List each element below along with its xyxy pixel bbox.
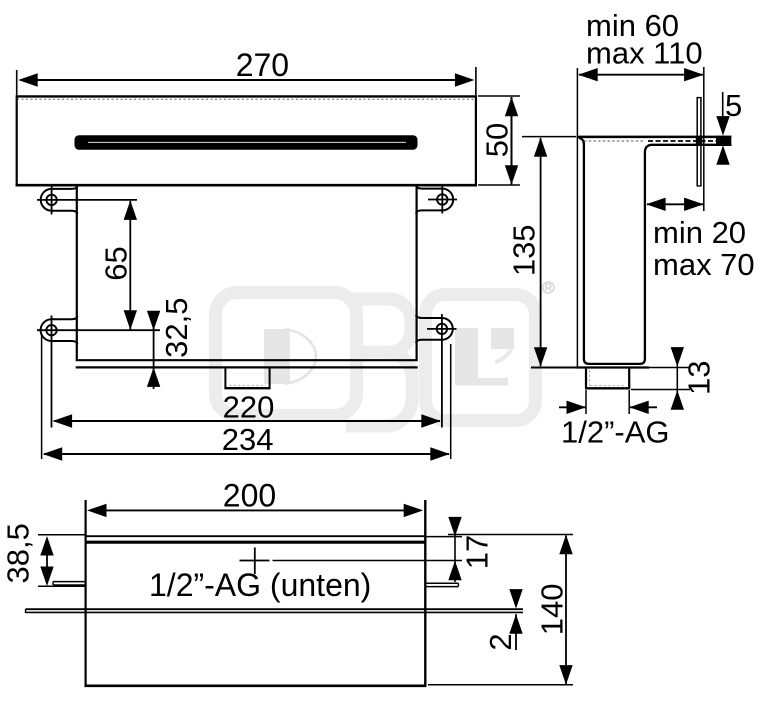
bottom box top line 2 xyxy=(85,541,426,544)
dim 65 line xyxy=(129,201,131,330)
dim 200 arrow left xyxy=(87,504,107,517)
dim min60/max110 line xyxy=(579,74,703,76)
dim 13 arrow top xyxy=(671,347,684,367)
stub bottom edge xyxy=(585,387,630,389)
body bottom line 1 xyxy=(76,359,418,361)
front box bottom edge xyxy=(16,184,477,187)
lug bottom-right hole xyxy=(437,324,447,334)
dim 234 extension right xyxy=(450,344,452,459)
spout tab right xyxy=(269,369,271,389)
profile right end cap xyxy=(716,136,731,145)
dim 13 extension bottom xyxy=(631,389,690,391)
dim 32,5 line middle xyxy=(153,330,155,367)
lug stub right top xyxy=(425,582,458,584)
body bottom line 2 xyxy=(76,366,418,368)
watermark letter L stem xyxy=(455,328,478,386)
dim 135 arrow up xyxy=(534,137,547,157)
spout tab bottom xyxy=(224,387,270,389)
dim 32,5 arrow bottom xyxy=(147,367,160,387)
dim 140 extension bottom xyxy=(428,684,573,686)
wall plate right face xyxy=(700,98,702,186)
lug top-right outline xyxy=(416,186,453,214)
watermark letter D stem xyxy=(264,329,290,384)
profile outer-left line xyxy=(576,68,578,368)
wall plate left face xyxy=(696,98,698,186)
front box top edge line 2 xyxy=(17,98,476,100)
svg-text:200: 200 xyxy=(223,478,276,514)
plate panel crossing xyxy=(696,136,703,145)
dim 270 line xyxy=(30,79,462,81)
svg-text:5: 5 xyxy=(725,88,742,123)
dim 13 arrow bottom xyxy=(671,390,684,410)
front box right edge xyxy=(475,95,477,186)
dim 50 arrow down xyxy=(505,165,518,185)
profile inner-right wall xyxy=(640,145,732,364)
lug bottom-right crosshair vertical / dim 220 extension right xyxy=(441,314,443,428)
bottom box left edge / dim 200 extension left xyxy=(84,500,86,687)
body left edge xyxy=(76,186,78,361)
dim 38,5 arrow up xyxy=(40,536,53,556)
dim 1/2-AG tail left xyxy=(559,406,586,408)
dim 38,5 arrow down xyxy=(40,567,53,587)
svg-text:135: 135 xyxy=(507,224,542,276)
profile outer bottom line / dim 13 extension top xyxy=(576,366,649,368)
dim 270 extension left xyxy=(16,70,18,95)
watermark letter D bowl xyxy=(285,329,316,384)
stub thread line left xyxy=(589,370,591,386)
dim 135 arrow down xyxy=(534,347,547,367)
dim 13 tail bottom xyxy=(676,390,678,408)
dim 200 line xyxy=(100,509,410,511)
svg-text:1/2”-AG (unten): 1/2”-AG (unten) xyxy=(149,567,371,603)
lug top-right crosshair horizontal xyxy=(428,199,457,201)
svg-text:max 110: max 110 xyxy=(586,36,703,71)
lug stub right cap xyxy=(457,583,459,586)
dim 65 arrow down xyxy=(124,310,137,330)
dim 17 extension top xyxy=(426,536,462,538)
front box left edge xyxy=(16,95,18,186)
dim 135 line xyxy=(540,138,542,366)
dim 140 arrow up xyxy=(559,535,572,555)
dim 200 arrow right xyxy=(404,504,424,517)
dim 17 arrow top xyxy=(448,517,461,537)
lug top-right crosshair vertical xyxy=(441,186,443,214)
watermark quote curl xyxy=(495,349,511,362)
lug top-left crosshair horizontal / dim 65 extension top xyxy=(37,199,137,201)
lug top-left hole xyxy=(46,195,56,205)
svg-text:13: 13 xyxy=(682,360,717,394)
dim 270 arrow right xyxy=(455,73,475,86)
dim 135 extension bottom xyxy=(531,367,577,369)
watermark quote blob xyxy=(491,328,514,349)
dim 135 extension top xyxy=(522,136,576,138)
body right edge xyxy=(416,186,418,361)
svg-text:140: 140 xyxy=(535,584,570,636)
dim 270 extension right xyxy=(475,67,477,95)
watermark letter L foot xyxy=(478,378,508,386)
dim 32,5 tail bottom xyxy=(153,368,155,389)
dim 2 arrow top xyxy=(509,589,522,609)
dim 140 extension top xyxy=(448,534,573,536)
profile top inner dashed line xyxy=(584,140,645,142)
front box top edge line 1 xyxy=(16,95,477,97)
lug stub left top xyxy=(53,581,86,583)
dim 17 tail bottom xyxy=(454,561,456,583)
dim 2 arrow bottom xyxy=(509,614,522,634)
dim min60/max110 extension right xyxy=(703,67,705,211)
dim 234 line xyxy=(44,453,449,455)
stub thread line bottom xyxy=(590,385,625,387)
lug bottom-right outline xyxy=(416,315,453,343)
svg-text:2: 2 xyxy=(483,633,518,650)
dim 17 tail top xyxy=(454,517,456,561)
dim 50 line xyxy=(511,97,513,185)
wall plate bottom cap xyxy=(697,185,702,187)
dim min60/max110 arrow right xyxy=(684,68,704,81)
panel gap dashed fill xyxy=(648,140,731,142)
dim 50 extension bottom xyxy=(478,184,520,186)
svg-text:50: 50 xyxy=(480,123,515,157)
crosshair vertical xyxy=(254,548,256,575)
lug stub left cap xyxy=(52,582,54,585)
dim 234 extension left xyxy=(41,334,43,459)
dim 220 arrow right xyxy=(421,414,441,427)
dim 38,5 extension top xyxy=(38,534,86,536)
svg-text:220: 220 xyxy=(223,389,275,424)
profile inner-left wall xyxy=(579,138,589,364)
bottom box right edge / dim 200 extension right xyxy=(424,500,426,687)
dim 5 arrow top xyxy=(716,116,729,136)
dim 38,5 extension bottom xyxy=(38,585,85,587)
lug stub left bottom xyxy=(53,584,86,586)
lug top-left crosshair vertical xyxy=(51,186,53,215)
dim 13 tail top xyxy=(676,348,678,390)
spout tab thread dashes xyxy=(229,384,266,386)
lug stub right bottom xyxy=(425,586,458,588)
dim min20/max70 line xyxy=(647,203,703,205)
dim 140 arrow down xyxy=(559,665,572,685)
dim min20/max70 arrow left xyxy=(646,198,666,211)
dim 2 leader xyxy=(515,614,517,650)
lug top-right hole xyxy=(437,194,447,204)
dim 5 arrow bottom xyxy=(716,145,729,165)
dim 234 arrow left xyxy=(43,447,63,460)
stub left edge xyxy=(585,369,587,388)
svg-text:max 70: max 70 xyxy=(653,247,755,282)
lug bottom-left hole xyxy=(46,325,56,335)
dim 32,5 arrow top xyxy=(147,311,160,331)
svg-text:38,5: 38,5 xyxy=(1,523,36,583)
svg-text:270: 270 xyxy=(236,47,289,83)
dim min20/max70 arrow right xyxy=(684,198,704,211)
dim 5 leader xyxy=(722,92,724,119)
svg-text:1/2”-AG: 1/2”-AG xyxy=(561,415,670,450)
svg-text:65: 65 xyxy=(99,246,134,280)
dim 50 arrow up xyxy=(505,97,518,117)
svg-text:17: 17 xyxy=(460,535,495,569)
dim 234 arrow right xyxy=(430,447,450,460)
watermark right ring xyxy=(426,295,536,421)
dim 1/2-AG arrow left xyxy=(567,401,587,414)
dim 220 arrow left xyxy=(53,414,73,427)
dim 50 extension top xyxy=(478,95,520,97)
dim 1/2-AG arrow right xyxy=(629,401,649,414)
bottom box bottom edge xyxy=(84,684,426,687)
crosshair horizontal / dim 17 extension bottom xyxy=(240,560,270,562)
wall plate bar left cap xyxy=(25,609,27,613)
spout tab left xyxy=(224,369,226,389)
watermark registered mark xyxy=(543,282,554,293)
lug bottom-left outline xyxy=(41,316,78,344)
lug bottom-right crosshair horizontal xyxy=(427,328,457,330)
dim 220 line xyxy=(54,420,440,422)
stub right edge xyxy=(628,369,630,388)
svg-text:min 20: min 20 xyxy=(653,215,746,250)
profile inner bottom line xyxy=(588,363,641,365)
dim 1/2-AG tail right xyxy=(629,406,657,408)
wall plate bar bottom line xyxy=(26,611,524,613)
lug bottom-left crosshair horizontal / dim 32,5 extension top xyxy=(37,329,160,331)
profile top line xyxy=(577,136,732,139)
slot highlight xyxy=(88,141,406,143)
dim 1/2-AG extension right xyxy=(628,390,630,414)
wall plate bar top line xyxy=(26,608,524,610)
dim 17 arrow bottom xyxy=(448,561,461,581)
dim 140 line xyxy=(565,536,567,685)
watermark logo left ring xyxy=(216,293,357,416)
svg-text:234: 234 xyxy=(222,422,274,457)
dim min60/max110 arrow left xyxy=(578,68,598,81)
dim 32,5 tail top xyxy=(153,311,155,330)
bottom box top line 1 xyxy=(85,535,426,537)
wall plate top cap xyxy=(697,97,702,99)
watermark letter 3 xyxy=(346,299,412,426)
dim 65 arrow up xyxy=(124,200,137,220)
dim 270 arrow left xyxy=(18,73,38,86)
slot xyxy=(75,135,418,150)
dim 38,5 line xyxy=(46,550,48,572)
lug top-left outline xyxy=(41,186,78,214)
lug bottom-left crosshair vertical / dim 220 extension left xyxy=(51,316,53,428)
dim 1/2-AG extension left xyxy=(585,390,587,414)
svg-text:32,5: 32,5 xyxy=(159,298,194,358)
